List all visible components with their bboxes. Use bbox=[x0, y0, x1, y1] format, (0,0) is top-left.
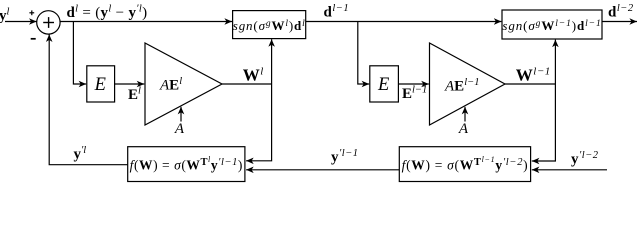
svg-text:dl = (yl − y′l): dl = (yl − y′l) bbox=[67, 3, 148, 21]
wire summer to sgn box 1 bbox=[60, 21, 232, 23]
wire E box 1 to amplifier 1 bbox=[115, 83, 144, 85]
wire feedback y'^l to summer bbox=[49, 34, 128, 164]
wire W^l down to f(W) box 1 bbox=[246, 84, 272, 161]
wire amplifier 1 output bbox=[222, 83, 272, 85]
svg-text:E: E bbox=[377, 75, 389, 95]
wire sgn box 1 to sgn box 2 bbox=[306, 21, 502, 23]
svg-text:A: A bbox=[174, 121, 185, 137]
plus inside summer bbox=[43, 17, 54, 28]
block sgn(sigma^g W^l)d^l bbox=[233, 11, 306, 39]
amplifier triangle 2 bbox=[430, 43, 506, 125]
wire E box 2 to amplifier 2 bbox=[398, 83, 428, 85]
amplifier triangle 1 bbox=[145, 43, 222, 125]
wire y'^{l-1} from f(W) box 2 to f(W) box 1 bbox=[246, 169, 399, 171]
A gain arrow into amplifier 1 bbox=[180, 107, 182, 122]
wire y'^{l-2} input to f(W) box 2 bbox=[532, 169, 607, 171]
svg-text:AEl: AEl bbox=[159, 76, 182, 94]
wire W^{l-1} up to sgn box 2 bbox=[554, 40, 556, 84]
block E (stage 1) bbox=[87, 66, 115, 102]
svg-text:A: A bbox=[458, 121, 469, 137]
wire amplifier 2 output bbox=[505, 83, 555, 85]
minus sign at summer feedback input bbox=[31, 38, 36, 40]
plus sign at summer input bbox=[29, 10, 34, 15]
svg-text:E: E bbox=[94, 75, 106, 95]
A gain arrow into amplifier 2 bbox=[464, 107, 466, 122]
wire sgn box 2 output d^{l-2} bbox=[602, 21, 637, 23]
block sgn(sigma^g W^{l-1})d^{l-1} bbox=[502, 10, 602, 39]
wire junction drop to E box 2 bbox=[358, 22, 369, 85]
wire W^l up to sgn box 1 bbox=[271, 39, 273, 84]
wire junction drop to E box 1 bbox=[73, 22, 86, 85]
wire W^{l-1} down to f(W) box 2 bbox=[532, 84, 556, 161]
block f(W) stage 1 bbox=[128, 147, 245, 182]
block f(W) stage 2 bbox=[399, 147, 530, 182]
block E (stage 2) bbox=[370, 66, 399, 102]
wire input y^l to summer bbox=[5, 21, 37, 23]
summing junction circle bbox=[37, 11, 60, 34]
